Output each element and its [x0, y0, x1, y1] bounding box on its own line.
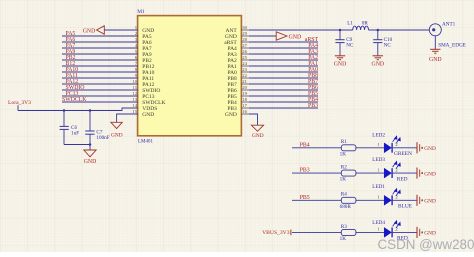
LED LED1 light arrows	[393, 189, 401, 196]
wire net PA9 to pin 5	[62, 53, 138, 55]
svg-text:19: 19	[242, 91, 247, 96]
wire net B12 to pin 7	[62, 65, 138, 67]
capacitor C7	[89, 111, 91, 131]
pin 4 PA7 stub	[131, 47, 139, 49]
svg-text:LED4: LED4	[372, 220, 385, 226]
svg-text:R2: R2	[341, 165, 347, 171]
svg-text:25: 25	[242, 55, 247, 60]
svg-text:L1: L1	[347, 21, 353, 27]
svg-text:26: 26	[242, 49, 247, 54]
svg-text:GND: GND	[142, 112, 154, 118]
svg-text:LM401: LM401	[138, 140, 154, 145]
LED LED2 light arrows	[393, 136, 401, 143]
wire LED to GND bar	[393, 231, 417, 233]
svg-text:GND: GND	[334, 61, 347, 67]
svg-text:PB5: PB5	[300, 195, 310, 201]
svg-text:GND: GND	[424, 199, 436, 205]
svg-text:GND: GND	[84, 159, 97, 165]
wire resistor to LED	[356, 199, 384, 201]
wire net PA11 to pin 9	[62, 77, 138, 79]
pin 25 PA2 stub	[241, 59, 249, 61]
junction C6	[63, 109, 66, 112]
svg-text:18: 18	[242, 97, 247, 102]
pin 9 PA11 stub	[131, 77, 139, 79]
svg-text:Lora_3V3: Lora_3V3	[8, 100, 31, 106]
svg-text:NC: NC	[346, 42, 354, 48]
ground power port GND (bar)	[416, 227, 418, 238]
wire resistor to LED	[356, 147, 384, 149]
wire net PA5 to pin 2	[62, 35, 138, 37]
wire LED to GND bar	[393, 147, 417, 149]
svg-text:GND: GND	[252, 133, 264, 139]
svg-text:SWDCLK: SWDCLK	[62, 97, 87, 103]
wire resistor to LED	[356, 172, 384, 174]
wire net PB5 from pin 19	[249, 95, 318, 97]
wire Lora_3V3 rail to VDDS pin 14	[18, 108, 138, 111]
svg-text:15: 15	[132, 109, 137, 114]
pin 22 PB8 stub	[241, 77, 249, 79]
junction C9	[339, 29, 342, 32]
pin 7 PB12 stub	[131, 65, 139, 67]
pin 18 PB4 stub	[241, 101, 249, 103]
wire net PA0 from pin 23	[249, 71, 318, 73]
pin 13 SWDCLK stub	[131, 101, 139, 103]
svg-text:ANT1: ANT1	[442, 21, 456, 27]
pin 28 aRST stub	[241, 41, 249, 43]
LED LED3 RED	[384, 168, 391, 178]
resistor R3 1K	[341, 229, 356, 235]
svg-text:28: 28	[242, 37, 247, 42]
wire LED to GND bar	[393, 199, 417, 201]
LED LED3 light arrows	[393, 162, 401, 169]
ground power port GND (bar)	[416, 168, 418, 179]
svg-text:17: 17	[242, 103, 247, 108]
svg-text:29: 29	[242, 31, 247, 36]
pin 24 PA1 stub	[241, 65, 249, 67]
svg-text:1K: 1K	[340, 151, 347, 157]
svg-text:CSDN @ww2801: CSDN @ww2801	[378, 237, 474, 252]
svg-text:GND: GND	[424, 171, 436, 177]
svg-text:GREEN: GREEN	[394, 151, 412, 157]
pin 10 PA12 stub	[131, 83, 139, 85]
wire net to resistor R4	[292, 199, 341, 201]
pin 30 ANT stub	[241, 29, 249, 31]
svg-text:20: 20	[242, 85, 247, 90]
svg-text:R4: R4	[341, 192, 347, 198]
wire LED to GND bar	[393, 172, 417, 174]
svg-text:GND: GND	[111, 133, 123, 139]
svg-text:VBUS_3V3: VBUS_3V3	[262, 230, 290, 236]
svg-text:11: 11	[133, 85, 138, 90]
wire net PB3 from pin 17	[249, 107, 318, 109]
pin 19 PB5 stub	[241, 95, 249, 97]
svg-text:GND: GND	[424, 231, 436, 237]
pin 21 PB7 stub	[241, 83, 249, 85]
pin 5 PA9 stub	[131, 53, 139, 55]
pin 23 PA0 stub	[241, 71, 249, 73]
LED LED2 GREEN	[384, 143, 391, 153]
svg-text:PB4: PB4	[300, 142, 310, 148]
svg-text:21: 21	[242, 79, 247, 84]
inductor L1	[353, 26, 369, 30]
pin 3 PA6 stub	[131, 41, 139, 43]
resistor R1 1K	[341, 145, 356, 151]
wire net to resistor R2	[292, 172, 341, 174]
wire resistor to LED	[356, 231, 384, 233]
wire net PA6 to pin 3	[62, 41, 138, 43]
wire pin 29 to GND port	[249, 35, 276, 37]
ground GND (C6/C7)	[84, 150, 96, 157]
svg-text:13: 13	[132, 97, 137, 102]
svg-text:PB3: PB3	[300, 168, 310, 174]
svg-text:NC: NC	[384, 42, 392, 48]
wire net PB2 to pin 6	[62, 59, 138, 61]
svg-text:GND: GND	[225, 112, 237, 118]
wire net PA4 from pin 27	[249, 47, 318, 49]
pin 14 VDDS stub	[131, 107, 139, 109]
resistor R4 680R	[341, 197, 356, 203]
svg-text:24: 24	[242, 61, 247, 66]
wire net PA12 to pin 10	[62, 83, 138, 85]
wire net PA10 to pin 8	[62, 71, 138, 73]
svg-text:1K: 1K	[340, 236, 347, 242]
capacitor C9 NC	[339, 30, 341, 39]
svg-text:10: 10	[132, 79, 137, 84]
svg-text:1K: 1K	[340, 177, 347, 183]
wire net PB6 from pin 20	[249, 89, 318, 91]
pin 11 SWDIO stub	[131, 89, 139, 91]
ground earth (C10)	[373, 55, 383, 57]
wire net aRST from pin 28	[249, 41, 318, 43]
svg-text:R1: R1	[341, 139, 347, 145]
svg-text:GND: GND	[424, 146, 436, 152]
ground earth (C9)	[335, 55, 345, 57]
svg-text:R3: R3	[341, 224, 347, 230]
ground GND (pin 16)	[251, 125, 263, 131]
wire net SWDCLK to pin 13	[62, 101, 138, 103]
junction C10	[377, 29, 380, 32]
resistor R2 1K	[341, 170, 356, 176]
svg-text:LED3: LED3	[372, 157, 385, 163]
ground power port GND (bar)	[416, 195, 418, 206]
pin 17 PB3 stub	[241, 107, 249, 109]
wire net SWDIO to pin 11	[62, 89, 138, 91]
pin 20 PB6 stub	[241, 89, 249, 91]
svg-text:1uF: 1uF	[71, 130, 79, 136]
LED LED4 RED	[384, 228, 391, 238]
svg-text:680R: 680R	[340, 204, 352, 210]
ground power port GND (pin 29)	[276, 32, 287, 40]
pin 27 PA4 stub	[241, 47, 249, 49]
wire net PA2 from pin 25	[249, 59, 318, 61]
LED LED4 light arrows	[393, 221, 401, 228]
pin 29 GND stub	[241, 35, 249, 37]
pin 26 PA3 stub	[241, 53, 249, 55]
wire net PB4 from pin 18	[249, 101, 318, 103]
ground power port GND (pin 1)	[97, 26, 105, 34]
ground power port GND (bar)	[416, 142, 418, 153]
svg-text:SMA_EDGE: SMA_EDGE	[438, 42, 466, 48]
svg-text:100nF: 100nF	[96, 135, 109, 141]
svg-text:GND: GND	[372, 61, 385, 67]
ground earth (ANT1)	[430, 48, 440, 50]
svg-text:0R: 0R	[362, 21, 369, 27]
svg-text:14: 14	[132, 103, 137, 108]
pin 12 PC13 stub	[131, 95, 139, 97]
svg-text:LED2: LED2	[372, 133, 385, 139]
svg-text:22: 22	[242, 73, 247, 78]
pin 2 PA5 stub	[131, 35, 139, 37]
pin 6 PB2 stub	[131, 59, 139, 61]
LED LED1 BLUE	[384, 195, 391, 205]
svg-text:30: 30	[242, 25, 247, 30]
junction common gnd	[89, 143, 92, 146]
ground GND (pin 15)	[111, 122, 122, 128]
capacitor C6	[63, 111, 65, 127]
pin 15 GND stub	[131, 113, 139, 115]
svg-text:PB3: PB3	[308, 103, 318, 109]
svg-text:GND: GND	[289, 34, 302, 40]
wire net PA7 to pin 4	[62, 47, 138, 49]
svg-text:12: 12	[132, 91, 137, 96]
wire net to resistor R1	[292, 147, 341, 149]
wire GND port to pin 1	[104, 29, 138, 31]
wire net PB7 from pin 21	[249, 83, 318, 85]
wire net PC13 to pin 12	[62, 95, 138, 97]
wire net PA1 from pin 24	[249, 65, 318, 67]
svg-text:RED: RED	[397, 176, 408, 182]
svg-text:LED1: LED1	[372, 184, 385, 190]
pin 8 PA10 stub	[131, 71, 139, 73]
pin 16 GND stub	[241, 113, 249, 115]
wire pin 16 to ground	[249, 114, 258, 125]
wire pin 15 to ground	[117, 114, 138, 122]
capacitor C10 NC	[377, 30, 379, 39]
svg-text:BLUE: BLUE	[398, 204, 413, 210]
svg-text:GND: GND	[429, 57, 442, 63]
wire net PA3 from pin 26	[249, 53, 318, 55]
svg-text:23: 23	[242, 67, 247, 72]
junction C7	[89, 109, 92, 112]
connector ANT1 SMA_EDGE	[429, 24, 441, 36]
svg-text:GND: GND	[83, 28, 96, 34]
svg-text:M1: M1	[137, 9, 145, 15]
wire C6/C7 common ground	[64, 144, 90, 146]
wire ANT pin 30 to antenna	[249, 29, 353, 31]
wire Lora_3V3 vertical	[17, 105, 19, 110]
svg-text:16: 16	[242, 109, 247, 114]
pin 1 GND stub	[131, 29, 139, 31]
chip M1 LM401 body	[138, 16, 242, 136]
wire net to resistor R3	[292, 231, 341, 233]
power port tick	[290, 230, 292, 236]
wire net PB8 from pin 22	[249, 77, 318, 79]
svg-text:27: 27	[242, 43, 247, 48]
